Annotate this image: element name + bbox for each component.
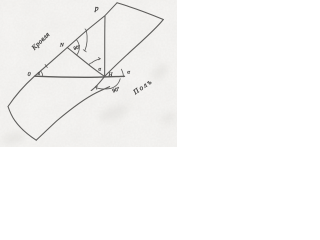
paper background: [0, 0, 177, 147]
wire: plank bottom edge from B (floor line tail): [36, 87, 109, 141]
svg-text:α: α: [127, 70, 130, 76]
wire: vertical line PH: [104, 16, 106, 76]
wire: plank bottom-right edge through H with overshoot: [91, 20, 163, 91]
tick on roof edge near O: [45, 65, 47, 68]
wire: horizontal line OH: [35, 76, 125, 77]
wire: plank top-left edge (roof line through O, N, P): [8, 3, 117, 107]
angle alpha arc right of H: [121, 69, 123, 77]
wire: plank top-right short edge: [117, 3, 163, 20]
small arrow pointing to angle alpha at vertical: [89, 59, 100, 64]
right angle arc at N: [77, 40, 80, 55]
wire: segment NH: [67, 48, 104, 77]
svg-text:0: 0: [28, 72, 31, 78]
90 degree arc below H with arrowhead: [96, 79, 120, 89]
svg-text:p: p: [94, 3, 99, 12]
curved double arrow near N (segment marker): [85, 31, 87, 51]
angle x arc at O: [41, 71, 43, 77]
svg-text:α: α: [98, 67, 101, 72]
wire: plank left short edge: [8, 107, 36, 141]
svg-text:N: N: [59, 43, 64, 49]
